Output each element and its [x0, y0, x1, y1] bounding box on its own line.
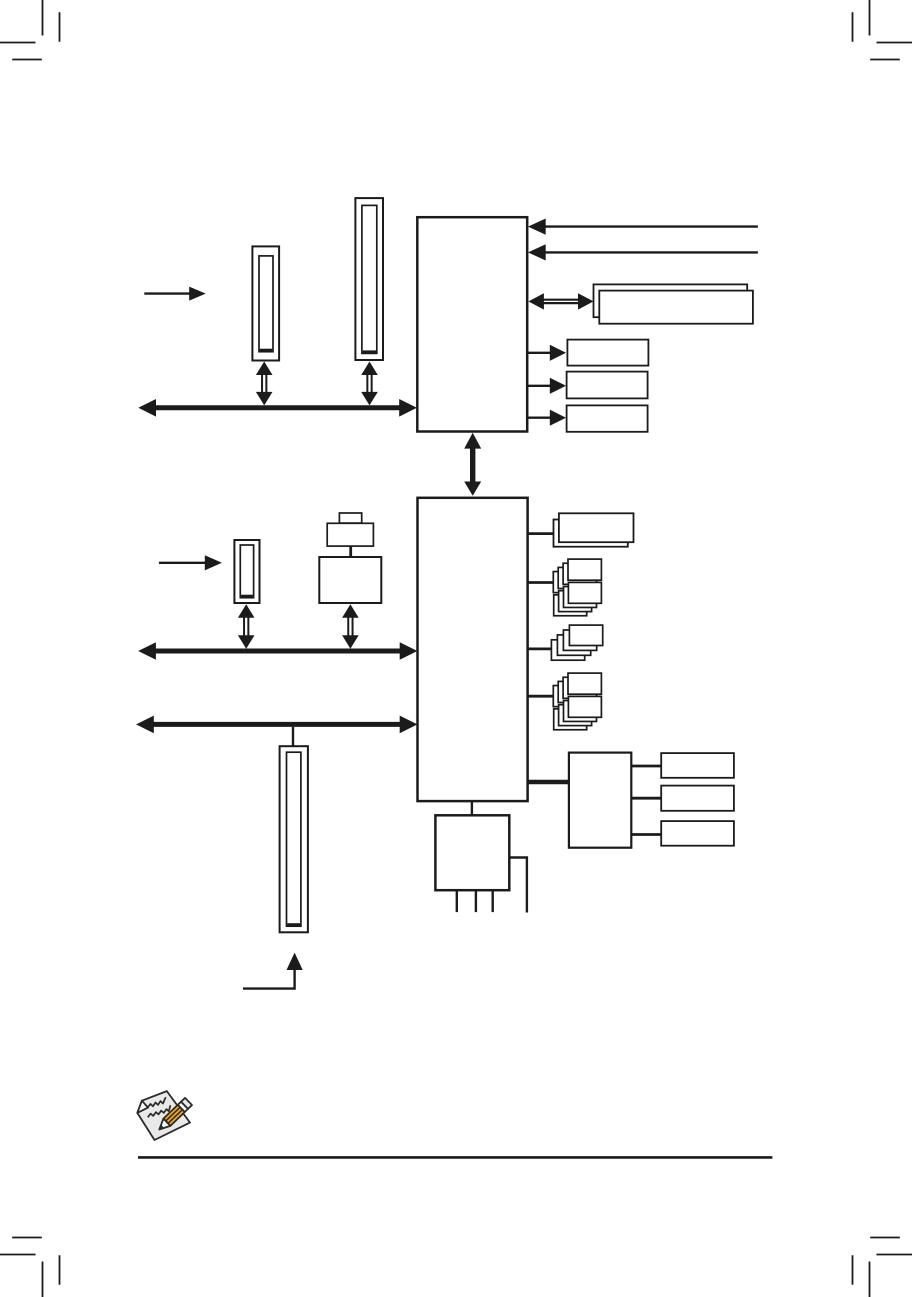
PCI Express bus wire (middle, double headed): [138, 642, 417, 660]
Chipset box: [418, 498, 528, 801]
PCI Express bus wire (top, double headed): [138, 399, 417, 417]
arrow CPU to display port box 1: [527, 345, 566, 361]
DDR4 DIMM socket (front): [599, 291, 753, 324]
arrow CPU to display port box 2: [527, 378, 566, 394]
footer rule: [138, 1156, 772, 1159]
wire LAN to port 3: [631, 833, 661, 836]
arrow into PCIe x16 slot area (top-left): [144, 287, 205, 301]
DDR4 DIMM socket (back): [594, 284, 748, 317]
double arrow: short slot to bus wire: [256, 362, 273, 406]
display output box 3: [567, 405, 648, 431]
printer crop mark bottom-left: [0, 1238, 60, 1297]
wire chipset to USB port stack 2: [528, 648, 553, 651]
arrow CPU to display port box 3: [527, 410, 566, 426]
wire LAN to port 2: [631, 797, 661, 800]
wire into CPU (top, from back panel 1): [528, 219, 758, 235]
PCI slot: [280, 746, 308, 932]
LAN chip box: [569, 753, 631, 848]
DMI link double arrow CPU to chipset: [464, 433, 481, 496]
display output box 1: [567, 340, 648, 366]
wire into CPU (from back panel 2): [528, 244, 758, 260]
USB port stack 1 (4 pairs cascade): [553, 559, 601, 616]
Super I/O pin wire 3: [492, 890, 494, 912]
printer crop mark top-right: [853, 0, 912, 60]
M.2 connector (back): [554, 520, 628, 547]
wire chipset to SATA stack: [528, 695, 555, 698]
wire chipset to Super I/O: [471, 801, 473, 815]
wire bus to PCI slot: [292, 727, 294, 747]
audio codec box: [319, 557, 381, 603]
thick wire chipset to LAN chip: [528, 780, 569, 785]
audio jack small box (top): [339, 513, 361, 523]
wire chipset to M.2 connector: [528, 532, 555, 535]
PCIe x16 slot (short, left): [252, 246, 279, 360]
Super I/O side wire: [509, 858, 527, 913]
wire chipset to USB port stack 1: [528, 581, 555, 584]
LAN port box 3: [661, 821, 734, 846]
USB port stack 2 (4 cascade): [551, 625, 602, 660]
wire LAN to port 1: [631, 765, 661, 768]
PCI bus wire (lower, double headed): [136, 716, 417, 734]
SATA connector stack (4 pairs cascade): [553, 673, 601, 730]
note icon (paper with pencil): [137, 1091, 192, 1140]
M.2 connector (front): [559, 513, 634, 542]
double arrow: tall slot to bus wire: [361, 362, 378, 406]
audio amplifier box: [327, 523, 373, 546]
PCIe x1 slot: [234, 540, 259, 603]
PCIe slot (tall): [355, 198, 383, 360]
Super I/O box: [435, 815, 509, 890]
printer crop mark top-left: [0, 0, 60, 60]
wire amplifier to codec: [349, 546, 352, 557]
display output box 2: [567, 372, 648, 399]
Super I/O pin wire 1: [456, 890, 458, 912]
arrow into PCIe x1 slot area (mid-left): [159, 555, 222, 570]
LAN port box 2: [661, 786, 734, 811]
printer crop mark bottom-right: [853, 1238, 912, 1297]
CPU box: [417, 217, 527, 431]
memory bus double-line arrow CPU to DDR4: [528, 293, 593, 309]
double arrow: codec to chipset bus: [342, 604, 359, 648]
Super I/O pin wire 2: [475, 890, 477, 912]
L-shaped arrow up into PCI slot area: [243, 953, 303, 989]
LAN port box 1: [661, 753, 734, 778]
double arrow: x1 slot to chipset bus: [238, 604, 255, 648]
